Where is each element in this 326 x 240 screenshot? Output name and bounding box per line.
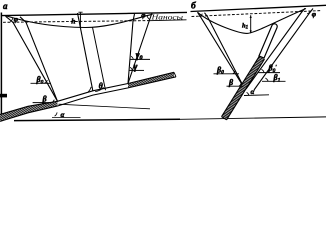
svg-text:Наносы: Наносы — [150, 14, 183, 21]
svg-text:α: α — [251, 88, 255, 96]
arc beta0 (panel a) — [44, 80, 47, 83]
surface line (panel b) — [191, 5, 326, 11]
svg-text:φ: φ — [141, 10, 146, 19]
arc beta1 (panel b) — [265, 78, 268, 81]
arc beta (panel b) — [239, 83, 241, 86]
floor extension line (panel a) — [59, 104, 151, 109]
seam band hatch left part (panel a) — [0, 101, 58, 121]
seam band hatch right part (panel a) — [128, 72, 174, 88]
svg-text:φ: φ — [312, 9, 317, 18]
frame left tick — [0, 94, 7, 98]
seam roof line (panel a) — [0, 72, 174, 114]
seam band hatch (panel b) — [222, 56, 265, 120]
ray shift-angle right (panel a) — [128, 13, 152, 84]
arc beta0 (panel b) — [233, 71, 236, 74]
dimension line h (panel a) — [79, 13, 81, 28]
tick beta (panel a) — [33, 102, 58, 104]
ray shift-angle right (panel b) — [254, 9, 313, 91]
arc theta (panel a) — [88, 87, 103, 92]
svg-text:α: α — [61, 111, 65, 119]
tick beta0 (panel b) — [214, 73, 240, 75]
tick beta0 (panel a) — [31, 82, 52, 84]
dashed alluvium base line (panel b) — [192, 11, 321, 17]
ray boundary-angle right (panel a) — [128, 14, 135, 84]
tick beta0-prime (panel b) — [259, 72, 281, 74]
arc phi right — [147, 15, 150, 19]
dimension line h1 (panel b) — [250, 15, 252, 33]
tick gamma0 (panel a) — [130, 58, 150, 60]
tick alpha (panel a) — [52, 117, 81, 119]
tick beta1 (panel b) — [262, 80, 286, 82]
svg-text:φ: φ — [14, 15, 19, 24]
theta ray (panel a) — [78, 13, 93, 91]
svg-text:h: h — [71, 17, 75, 26]
solid line under Nanosy text (panel a) — [149, 19, 187, 22]
svg-text:β: β — [228, 78, 234, 87]
arc beta (panel a) — [52, 100, 55, 103]
arc beta0-prime (panel b) — [262, 69, 265, 72]
ray boundary-angle left (panel a) — [6, 16, 58, 101]
arc alpha (panel b) — [247, 92, 249, 95]
arc phi (panel b) — [307, 11, 310, 14]
dashed alluvium base line (panel a) — [3, 21, 150, 23]
arc gamma0 (panel a) — [131, 56, 133, 59]
frame bottom line — [14, 119, 180, 120]
seam band right edge (panel b) — [227, 59, 265, 120]
seam band bottom cap (panel b) — [222, 117, 227, 120]
svg-text:γ: γ — [134, 62, 138, 72]
arc alpha (panel a) — [55, 112, 58, 116]
subsidence trough curve (panel a) — [7, 14, 153, 27]
dimension arrow bottom (panel b) — [250, 30, 252, 33]
seam floor line (panel a) — [0, 77, 176, 122]
dimension tick top (panel a) — [78, 11, 82, 13]
ray boundary-angle right (panel b) — [246, 8, 305, 89]
tick alpha (panel b) — [244, 94, 269, 97]
ray shift-angle left (panel b) — [205, 13, 245, 89]
svg-text:β: β — [42, 95, 48, 104]
arc gamma (panel a) — [130, 67, 132, 70]
seam band left edge (panel b) — [222, 56, 260, 117]
ray boundary-angle left (panel b) — [198, 12, 245, 88]
arc phi left — [10, 18, 13, 22]
svg-text:а: а — [3, 1, 8, 11]
frame left border — [0, 13, 2, 122]
tick gamma (panel a) — [129, 69, 144, 71]
subsidence trough curve (panel b) — [198, 9, 307, 34]
max subsidence line (panel a) — [93, 27, 106, 90]
seam band right end cap (panel a) — [174, 72, 176, 77]
tick beta (panel b) — [227, 85, 244, 87]
stope loop (panel b) — [259, 24, 277, 58]
surface line (panel a) — [2, 12, 187, 15]
ray shift-angle left (panel a) — [20, 17, 58, 102]
dimension arrow top (panel b) — [250, 15, 252, 18]
arc bend left (panel b) — [199, 14, 202, 17]
